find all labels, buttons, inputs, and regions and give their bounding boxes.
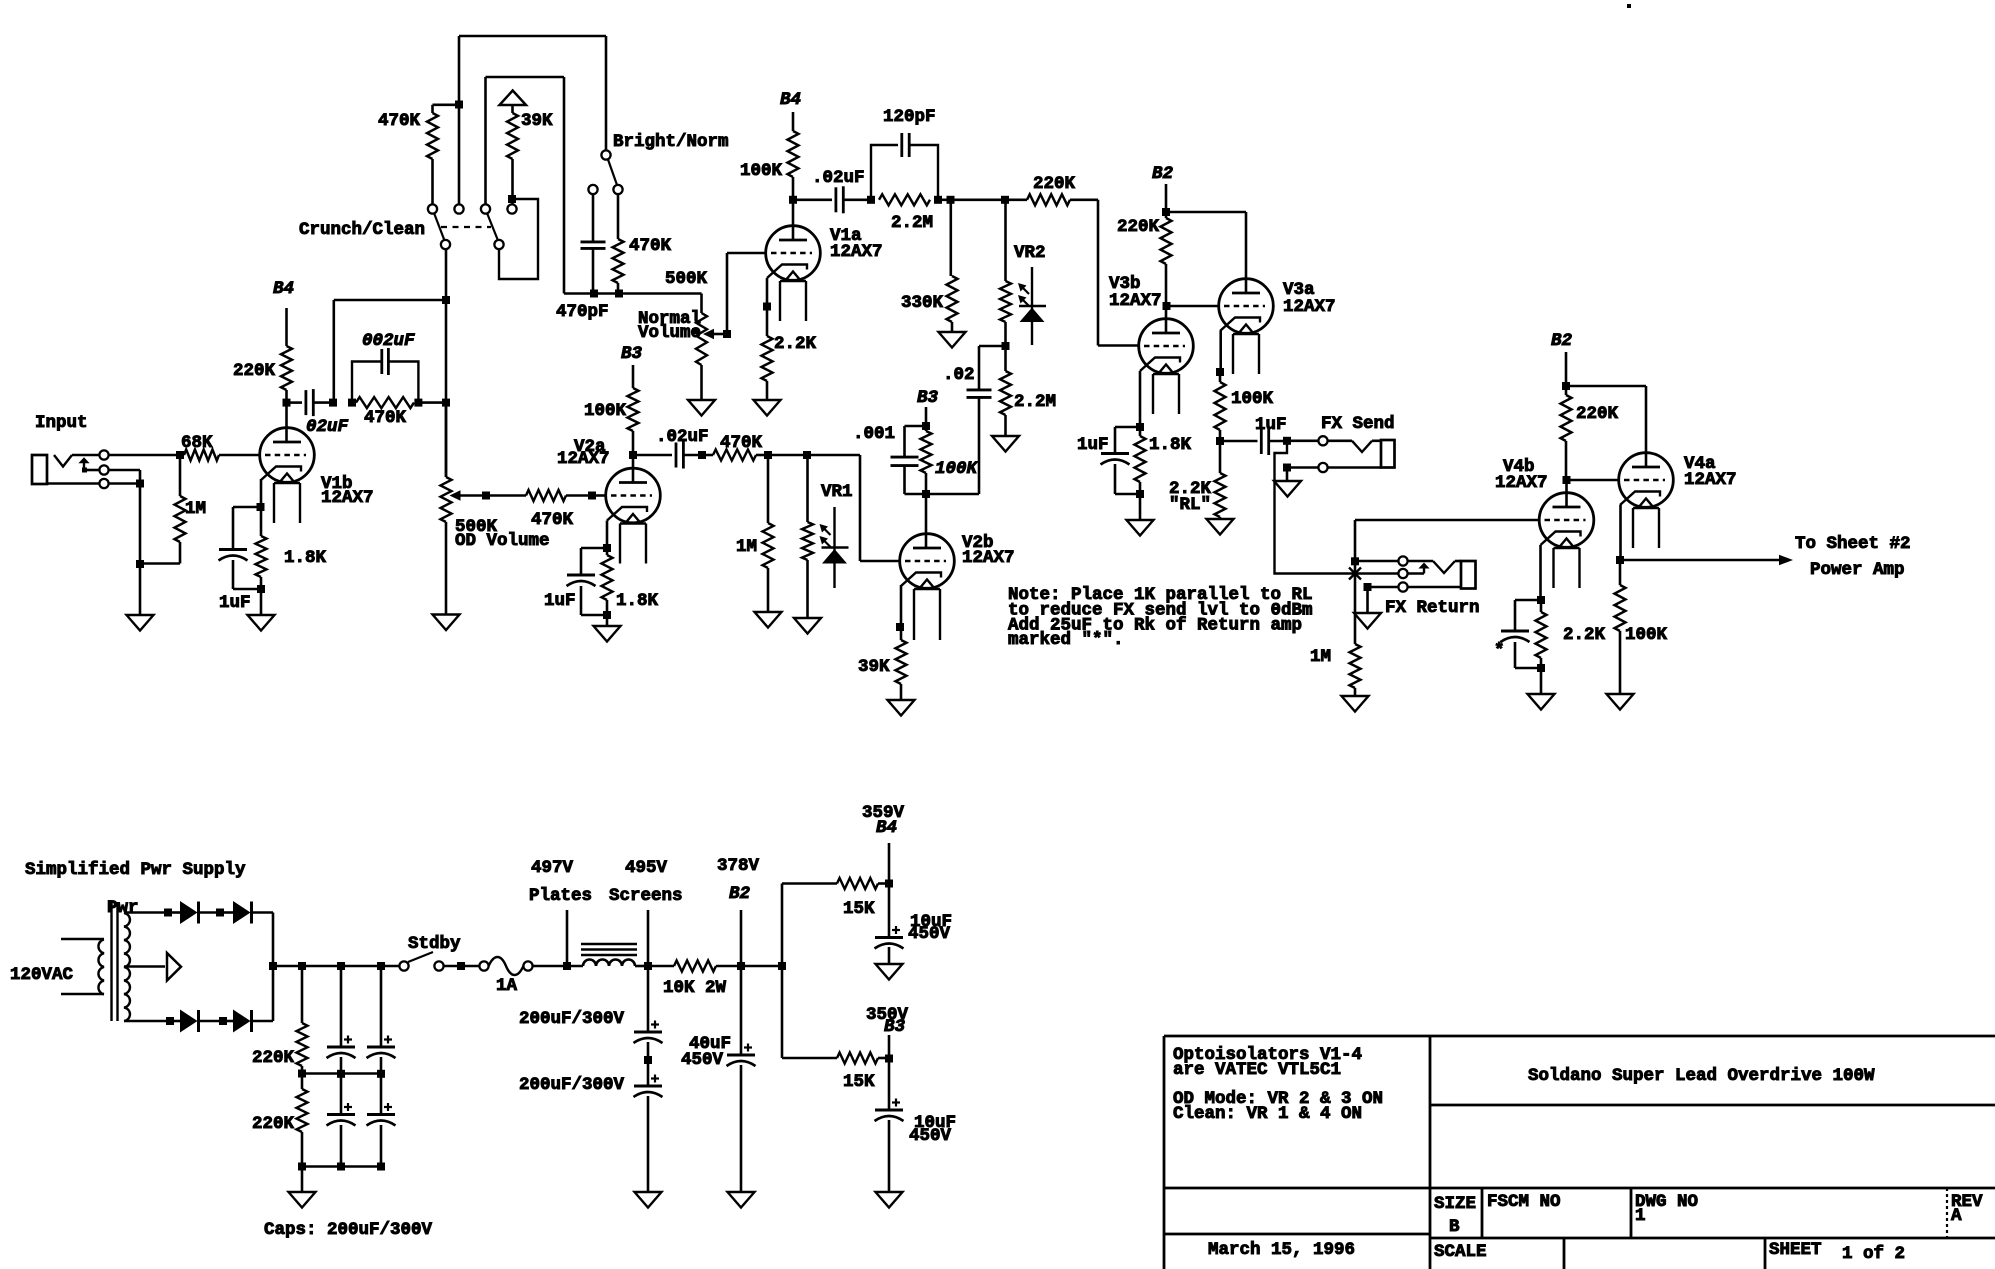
tube V1a 12AX7	[766, 226, 821, 281]
node 378V B2	[740, 910, 743, 966]
svg-text:B2: B2	[1152, 164, 1174, 184]
tube V4b 12AX7	[1539, 493, 1594, 548]
junction	[563, 962, 571, 970]
resistor 1.8K V1b	[260, 507, 263, 536]
wire	[1139, 494, 1142, 520]
transformer primary winding	[98, 940, 104, 995]
wire switch pole to pot	[445, 249, 448, 477]
svg-text:FX Return: FX Return	[1385, 598, 1480, 618]
ground	[594, 626, 621, 642]
svg-text:12AX7: 12AX7	[1283, 297, 1336, 317]
svg-text:15K: 15K	[843, 899, 875, 919]
ground	[755, 612, 782, 628]
svg-text:10K 2W: 10K 2W	[663, 978, 727, 998]
svg-text:1.8K: 1.8K	[616, 591, 659, 611]
junction	[629, 451, 637, 459]
svg-text:1uF: 1uF	[219, 593, 251, 613]
ground	[794, 618, 821, 634]
svg-text:"RL": "RL"	[1169, 495, 1211, 515]
svg-text:497V: 497V	[531, 858, 574, 878]
wire	[219, 454, 260, 457]
junction	[1002, 342, 1010, 350]
svg-text:1: 1	[1635, 1206, 1646, 1226]
svg-text:March 15, 1996: March 15, 1996	[1208, 1240, 1355, 1260]
ground	[1607, 694, 1634, 710]
input jack J1 tip spring	[54, 455, 72, 467]
tube V3b 12AX7	[1139, 319, 1194, 374]
wire to 15K lower	[781, 966, 784, 1058]
wire	[741, 965, 782, 968]
capacitor 1uF V1b	[233, 506, 261, 509]
junction	[789, 196, 797, 204]
svg-text:2.2K: 2.2K	[774, 334, 817, 354]
svg-text:B: B	[1449, 1217, 1460, 1237]
tube V1b 12AX7	[260, 428, 315, 483]
switch gang dashed link	[441, 226, 491, 228]
junction	[934, 196, 942, 204]
svg-text:2.2M: 2.2M	[1014, 392, 1056, 412]
svg-text:Soldano Super Lead Overdrive 1: Soldano Super Lead Overdrive 100W	[1528, 1066, 1875, 1086]
potentiometer 500K Normal Volume	[700, 294, 703, 314]
svg-text:200uF/300V: 200uF/300V	[519, 1075, 625, 1095]
wire secondary bottom	[124, 1020, 170, 1023]
wire B2 to V3a plate	[1166, 211, 1246, 214]
junction	[1537, 664, 1545, 672]
capacitor 02uF coupling	[287, 401, 303, 404]
ground	[1274, 481, 1301, 497]
fuse 1A	[479, 961, 488, 970]
svg-text:100K: 100K	[1625, 625, 1668, 645]
svg-text:100K: 100K	[935, 459, 979, 479]
junction	[867, 196, 875, 204]
svg-text:1M: 1M	[736, 537, 757, 557]
svg-text:220K: 220K	[252, 1114, 295, 1134]
svg-text:marked "*".: marked "*".	[1008, 630, 1124, 650]
junction	[257, 585, 265, 593]
svg-text:100K: 100K	[740, 161, 783, 181]
wire	[1349, 572, 1398, 575]
junction	[337, 1070, 345, 1078]
svg-text:VR1: VR1	[821, 482, 853, 502]
svg-text:SIZE: SIZE	[1434, 1194, 1476, 1214]
node 350V B3	[888, 1035, 891, 1058]
wire	[139, 564, 142, 615]
ground	[1354, 613, 1381, 629]
ground	[248, 615, 275, 631]
svg-text:220K: 220K	[252, 1048, 295, 1068]
title block size box lines	[1481, 1188, 1484, 1238]
wire	[1287, 466, 1318, 469]
junction	[442, 399, 450, 407]
inductor choke	[583, 960, 635, 967]
junction	[337, 1163, 345, 1171]
capacitor 002uF	[352, 362, 382, 403]
wire	[533, 965, 583, 968]
svg-text:470K: 470K	[364, 408, 407, 428]
capacitor bypass V4b *	[1515, 599, 1541, 602]
junction	[136, 480, 144, 488]
resistor 2.2K RL	[1219, 441, 1222, 473]
tube V2a 12AX7	[606, 468, 661, 523]
inductor core lines	[581, 943, 637, 945]
ground	[728, 1192, 755, 1208]
optoisolator VR1	[806, 455, 809, 522]
wire to 15K upper	[781, 884, 784, 967]
wire	[109, 454, 180, 457]
svg-text:1uF: 1uF	[1255, 415, 1287, 435]
svg-text:1M: 1M	[185, 499, 206, 519]
junction	[764, 451, 772, 459]
junction	[482, 492, 490, 500]
wire plate V1a	[792, 200, 795, 240]
wiper OD Volume	[450, 490, 461, 500]
svg-text:12AX7: 12AX7	[557, 449, 610, 469]
wire plate V2a	[632, 455, 635, 483]
wire	[109, 482, 140, 485]
resistor 220K bleeder 1	[301, 966, 304, 1023]
transformer core	[110, 902, 112, 1021]
svg-text:120pF: 120pF	[883, 107, 936, 127]
svg-text:B4: B4	[273, 279, 294, 299]
svg-text:12AX7: 12AX7	[1684, 470, 1737, 490]
junction	[283, 399, 291, 407]
input jack J1 sleeve lead	[47, 482, 99, 485]
input jack J1 tip contact	[99, 450, 108, 459]
wire bottom bright/norm	[564, 292, 702, 295]
svg-text:1.8K: 1.8K	[284, 548, 327, 568]
svg-text:1 of 2: 1 of 2	[1842, 1244, 1905, 1264]
junction	[1163, 302, 1171, 310]
ground	[1342, 696, 1369, 712]
wire cathode V1a	[766, 278, 769, 307]
svg-text:B2: B2	[1551, 331, 1573, 351]
wire cathode V1b	[260, 479, 263, 507]
capacitor .02uF V1a out	[793, 199, 832, 202]
svg-text:Power Amp: Power Amp	[1810, 560, 1905, 580]
svg-text:1uF: 1uF	[1077, 435, 1109, 455]
svg-text:Bright/Norm: Bright/Norm	[613, 132, 729, 152]
switch Stdby	[399, 961, 408, 970]
junction	[1283, 437, 1291, 445]
optoisolator VR2 arrows	[1020, 285, 1029, 294]
wire rectifier output	[273, 965, 404, 968]
resistor 1M input	[179, 455, 182, 496]
wire secondary top	[124, 911, 168, 914]
tube V2b 12AX7	[900, 534, 955, 589]
junction	[644, 1056, 652, 1064]
title block title underline	[1430, 1104, 1995, 1107]
junction	[947, 196, 955, 204]
wire wiper to V1a grid	[726, 253, 729, 334]
svg-text:495V: 495V	[625, 858, 668, 878]
svg-text:Input: Input	[35, 413, 88, 433]
wire	[272, 966, 275, 1021]
wire bottom rail	[302, 1165, 381, 1168]
wire	[1565, 352, 1568, 386]
transformer center tap arrow	[124, 965, 165, 968]
wire cathode V2b	[900, 585, 903, 627]
svg-text:A: A	[1951, 1206, 1962, 1226]
wire	[418, 401, 446, 404]
wire	[444, 965, 480, 968]
junction	[1001, 196, 1009, 204]
wire loop section B	[499, 199, 538, 279]
wire to V3a grid	[1167, 305, 1219, 308]
ground	[992, 436, 1019, 452]
junction	[377, 962, 385, 970]
svg-text:B4: B4	[780, 90, 801, 110]
switch Crunch/Clean section B	[481, 204, 490, 213]
svg-text:B3: B3	[884, 1017, 906, 1037]
FX Send jack tip spring	[1328, 439, 1352, 442]
junction	[778, 962, 786, 970]
FX Return jack sleeve lead	[1408, 586, 1461, 589]
wire top loop	[458, 36, 461, 105]
capacitor 1uF FX send	[1220, 440, 1258, 443]
resistor 68K	[184, 450, 219, 461]
svg-text:To Sheet #2: To Sheet #2	[1795, 534, 1911, 554]
capacitor .02uF V2a out	[633, 454, 672, 457]
wire	[1165, 184, 1168, 212]
junction	[885, 880, 893, 888]
svg-text:Volume: Volume	[638, 323, 701, 343]
FX Send jack sleeve contact	[1318, 463, 1327, 472]
junction	[1136, 490, 1144, 498]
wire output to sheet 2	[1620, 559, 1780, 562]
svg-text:FSCM NO: FSCM NO	[1487, 1192, 1561, 1212]
svg-text:Clean: VR 1 & 4 ON: Clean: VR 1 & 4 ON	[1173, 1104, 1362, 1124]
resistor 330K	[949, 200, 952, 276]
junction	[922, 490, 930, 498]
junction	[1136, 423, 1144, 431]
svg-text:470K: 470K	[629, 236, 672, 256]
svg-text:12AX7: 12AX7	[1495, 473, 1548, 493]
junction	[377, 1163, 385, 1171]
node 359V B4	[888, 843, 891, 884]
svg-text:1M: 1M	[1310, 647, 1331, 667]
svg-text:12AX7: 12AX7	[830, 242, 883, 262]
svg-text:470K: 470K	[378, 111, 421, 131]
capacitor 10uF/450V B4	[888, 884, 891, 938]
resistor 220K V1b plate	[285, 308, 288, 346]
wire	[72, 454, 99, 457]
svg-text:OD Volume: OD Volume	[455, 531, 550, 551]
title block divider vertical	[1429, 1036, 1432, 1269]
capacitor filter C4	[380, 1074, 383, 1115]
svg-text:VR2: VR2	[1014, 243, 1046, 263]
input jack J1 sleeve contact	[99, 479, 108, 488]
junction	[1562, 382, 1570, 390]
wire	[938, 199, 1027, 202]
svg-text:330K: 330K	[901, 293, 944, 313]
svg-text:120VAC: 120VAC	[10, 965, 74, 985]
wire	[301, 1167, 304, 1193]
svg-text:.02uF: .02uF	[812, 168, 865, 188]
junction	[176, 451, 184, 459]
node 497V Plates	[566, 910, 569, 966]
svg-text:are VATEC VTL5C1: are VATEC VTL5C1	[1173, 1060, 1341, 1080]
svg-text:220K: 220K	[233, 361, 276, 381]
ground	[876, 964, 903, 980]
svg-text:100K: 100K	[1231, 389, 1274, 409]
junction	[337, 962, 345, 970]
transformer primary leads	[61, 938, 104, 941]
wire	[1368, 586, 1399, 589]
resistor 100K V2a plate	[632, 365, 635, 388]
ground	[635, 1192, 662, 1208]
svg-text:68K: 68K	[181, 433, 213, 453]
input jack J1 tip-sense arrow	[78, 457, 89, 463]
svg-text:220K: 220K	[1576, 404, 1619, 424]
ground	[1127, 520, 1154, 536]
svg-text:.02: .02	[943, 365, 975, 385]
svg-text:220K: 220K	[1117, 217, 1160, 237]
wire	[1286, 468, 1289, 482]
svg-text:*: *	[1494, 641, 1505, 661]
resistor 470K series	[713, 450, 756, 461]
FX Return jack tip-sense arrow	[1418, 563, 1429, 569]
capacitor .02 VR2	[979, 345, 1006, 348]
svg-text:39K: 39K	[521, 111, 553, 131]
title block border	[1164, 1035, 1995, 1038]
ground	[754, 400, 781, 416]
svg-text:B3: B3	[917, 388, 939, 408]
svg-text:.02uF: .02uF	[656, 427, 709, 447]
svg-text:470K: 470K	[720, 433, 763, 453]
switch Crunch/Clean section A	[428, 204, 437, 213]
wire V2b plate to .02	[926, 493, 979, 496]
ground	[433, 615, 460, 631]
wire to V3b grid	[1070, 199, 1098, 202]
capacitor filter C2	[380, 966, 383, 1047]
diode D4	[223, 1020, 233, 1023]
resistor 470K OD wiper	[486, 494, 526, 497]
diode D2	[220, 911, 233, 914]
svg-text:.001: .001	[853, 424, 895, 444]
input jack J1 body	[32, 455, 47, 484]
resistor 2.2K V4b	[1540, 600, 1543, 612]
capacitor 10uF/450V B3	[888, 1059, 891, 1111]
resistor 220K V4 plate	[1561, 395, 1572, 441]
node 495V Screens	[647, 910, 650, 966]
ground	[939, 332, 966, 348]
capacitor filter C3	[340, 1074, 343, 1115]
junction	[166, 1017, 174, 1025]
wire	[458, 105, 461, 205]
junction	[1283, 464, 1291, 472]
FX Return jack sleeve contact	[1398, 582, 1407, 591]
svg-text:2.2K: 2.2K	[1563, 625, 1606, 645]
switch Bright/Norm	[601, 150, 610, 159]
svg-text:12AX7: 12AX7	[1109, 291, 1162, 311]
resistor 15K lower	[837, 1053, 878, 1064]
svg-text:450V: 450V	[908, 924, 951, 944]
ground	[289, 1192, 316, 1208]
svg-text:B2: B2	[729, 884, 751, 904]
junction	[1351, 557, 1359, 565]
junction	[377, 1070, 385, 1078]
junction	[723, 330, 731, 338]
wire plate V2b	[925, 494, 928, 548]
svg-text:Simplified Pwr Supply: Simplified Pwr Supply	[25, 860, 246, 880]
resistor 2.2K V1a	[766, 307, 769, 337]
diode D1	[168, 911, 180, 914]
svg-text:02uF: 02uF	[306, 417, 349, 437]
ground	[888, 700, 915, 716]
junction	[763, 303, 771, 311]
junction	[590, 290, 598, 298]
optoisolator VR1 arrows	[822, 526, 831, 535]
resistor 100K V1a plate	[792, 112, 795, 131]
junction	[348, 399, 356, 407]
svg-text:100K: 100K	[584, 401, 627, 421]
capacitor filter C1	[340, 966, 343, 1047]
FX Send jack sleeve lead	[1328, 466, 1381, 469]
resistor 470K crunch	[433, 104, 460, 107]
wire FX return to V4b grid	[1354, 520, 1357, 561]
junction	[136, 560, 144, 568]
FX Return jack tip spring	[1408, 560, 1433, 563]
wire	[1355, 560, 1398, 563]
svg-text:1.8K: 1.8K	[1149, 435, 1192, 455]
wire	[260, 589, 263, 615]
capacitor 200uF/300V upper	[647, 966, 650, 1032]
FX Send jack tip contact	[1318, 436, 1327, 445]
capacitor .001	[905, 425, 927, 428]
junction	[442, 296, 450, 304]
FX Return jack body	[1461, 561, 1476, 589]
junction	[455, 101, 463, 109]
optoisolator VR2 LED	[1031, 267, 1033, 345]
resistor 100K V3a	[1219, 372, 1222, 382]
wire cathode V3b	[1139, 371, 1142, 427]
tube V4a 12AX7	[1619, 453, 1674, 508]
junction	[457, 962, 465, 970]
svg-text:Caps: 200uF/300V: Caps: 200uF/300V	[264, 1220, 433, 1240]
resistor 1M FX return	[1350, 644, 1361, 688]
junction	[885, 1055, 893, 1063]
svg-text:SHEET: SHEET	[1769, 1240, 1822, 1260]
resistor 15K upper	[837, 878, 878, 889]
input jack J1 ring contact	[99, 465, 108, 474]
svg-text:12AX7: 12AX7	[321, 488, 374, 508]
svg-text:Screens: Screens	[609, 886, 683, 906]
resistor 1.8K V2a	[606, 548, 609, 555]
wire to V2b grid	[859, 455, 862, 561]
resistor 1M V2a	[767, 455, 770, 523]
svg-text:15K: 15K	[843, 1072, 875, 1092]
svg-text:Stdby: Stdby	[408, 934, 461, 954]
junction	[1216, 368, 1224, 376]
junction	[298, 1070, 306, 1078]
ground	[1528, 694, 1555, 710]
speck	[1627, 4, 1631, 8]
wire cathode V4a	[1619, 505, 1622, 560]
wire	[606, 615, 609, 626]
resistor 220K bleeder 2	[301, 1074, 304, 1090]
wire FX send to return	[1275, 441, 1350, 574]
resistor 1.8K V3b	[1139, 427, 1142, 436]
svg-text:B4: B4	[876, 818, 897, 838]
wire to switch	[332, 300, 335, 403]
wire	[139, 484, 142, 565]
capacitor 120pF	[871, 145, 898, 200]
svg-text:SCALE: SCALE	[1434, 1242, 1487, 1262]
svg-text:39K: 39K	[858, 657, 890, 677]
svg-text:470K: 470K	[531, 510, 574, 530]
wire plate V3b	[1165, 306, 1168, 333]
wire	[109, 469, 140, 472]
